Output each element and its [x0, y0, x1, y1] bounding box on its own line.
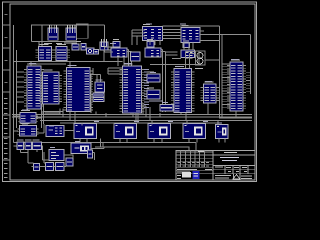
- resistor R10: [33, 140, 42, 150]
- counter U3: [36, 44, 55, 61]
- latch U1: [143, 24, 163, 41]
- label row under A cluster: [64, 43, 77, 44]
- microcontroller U5: [24, 63, 44, 109]
- wire long under U8: [150, 64, 199, 66]
- label small: [76, 41, 81, 42]
- wire opto exit: [91, 153, 95, 161]
- wire top feeds above U5: [27, 63, 66, 65]
- wire crystal feed: [88, 73, 101, 75]
- connector J1 outline: [77, 24, 89, 38]
- title block triangle logo: [233, 175, 240, 180]
- wire U9 to U10 mesh: [93, 68, 123, 74]
- wire step routes under U10: [133, 103, 150, 123]
- resistor R5: [147, 72, 160, 82]
- wire drop at x42: [41, 25, 43, 47]
- wire under A row: [32, 40, 81, 42]
- transformer T1: [195, 51, 205, 69]
- wire right bus B: [221, 35, 223, 119]
- label left of U6: [107, 50, 111, 51]
- wire right bus turn: [219, 117, 252, 119]
- gate U19: [46, 126, 64, 137]
- wire bottom bus 2: [95, 146, 189, 148]
- crystal Y1: [95, 80, 105, 93]
- wire U2 stub: [200, 30, 204, 32]
- wire bottom bus 1: [14, 141, 197, 143]
- capacitor C3: [34, 164, 40, 171]
- wire digit drops: [80, 139, 225, 143]
- title block text smudges: [177, 151, 252, 179]
- wire crystal drop A: [96, 74, 98, 82]
- title block outline: [176, 151, 255, 181]
- wire left bus A: [13, 25, 15, 142]
- adc U12: [227, 59, 246, 111]
- net label smudges scattered: [18, 24, 239, 148]
- wire mid bus 2: [12, 116, 252, 118]
- wire left bus B: [16, 50, 18, 128]
- wire crystal drop B: [100, 74, 102, 82]
- capacitor C1: [93, 93, 104, 97]
- regulator U20: [49, 150, 64, 161]
- wire link verticals between buses: [100, 139, 102, 148]
- 7-seg display DS5: [216, 125, 229, 139]
- opto U14: [87, 48, 95, 54]
- title block logo blue cell: [192, 171, 199, 179]
- wire left of U8: [172, 57, 181, 59]
- resistor R8: [17, 140, 24, 150]
- latch U10: [120, 63, 145, 113]
- wire bottom-left routes: [21, 146, 105, 167]
- resistor R7: [160, 105, 173, 112]
- wire U6 to U1 links: [132, 30, 145, 45]
- title block left lower rows: [176, 170, 213, 174]
- resistor R1: [72, 44, 79, 50]
- wire U2 long link right: [200, 34, 251, 36]
- label under RP2: [56, 43, 62, 44]
- title block revision ladder rows: [176, 152, 213, 167]
- wire mid vertical B: [43, 104, 45, 124]
- wire right margin vertical: [250, 35, 252, 95]
- wire RP3 drop to row wire: [103, 50, 105, 62]
- sheet outer border: [3, 2, 257, 182]
- wire right bus A: [218, 26, 220, 118]
- 7-seg display DS3: [148, 124, 171, 139]
- wire crystal column: [90, 75, 92, 113]
- 7-seg display DS2: [114, 124, 137, 139]
- resistor R2: [81, 44, 86, 51]
- wire left bus stubs to U5: [17, 72, 25, 102]
- resistor R6: [147, 88, 160, 99]
- sheet inner border: [10, 4, 255, 180]
- resistor network RP1: [48, 25, 58, 40]
- wire horizontal under gate row: [14, 61, 123, 63]
- wire RP3 to U6 links: [105, 47, 114, 52]
- wire U19 to DS1: [64, 130, 74, 132]
- title block right dividers: [213, 155, 255, 180]
- resistor R4: [94, 50, 99, 55]
- wire bus drop to title block A: [188, 147, 190, 151]
- diode D1: [88, 150, 93, 158]
- label under RP1: [44, 43, 52, 44]
- buffer U18: [18, 123, 39, 136]
- wire U7 to U8 links: [165, 52, 178, 55]
- wire mid verticals near U5: [41, 104, 43, 128]
- wire digit top feeds: [82, 121, 218, 126]
- net label box: [43, 112, 63, 115]
- 7-seg display DS4: [183, 124, 206, 139]
- ram U13: [201, 81, 220, 103]
- wire K column stubs: [14, 116, 45, 133]
- resistor network RP2: [66, 25, 77, 40]
- eprom U5B: [40, 69, 63, 104]
- resistor R12: [56, 163, 65, 171]
- wire mid bus 1: [12, 114, 252, 116]
- capacitor C2: [93, 98, 104, 102]
- opto coupler U7: [145, 39, 166, 112]
- latch U2: [181, 25, 200, 43]
- wire E-row to bus steps: [60, 103, 236, 123]
- eprom U11: [171, 66, 195, 113]
- wire U2 to U8 drops: [184, 43, 193, 51]
- opto coupler U6: [111, 39, 132, 66]
- wire drop to U5 top: [30, 62, 32, 67]
- wire top horizontal net: [31, 24, 105, 26]
- opto isolator U21: [71, 143, 91, 154]
- wire U1 to U6 drops: [150, 40, 160, 46]
- wire U6 to U10 drops: [118, 57, 124, 66]
- microcontroller U9: [64, 65, 94, 112]
- label under U10: [149, 101, 163, 102]
- opto coupler U8: [181, 41, 195, 69]
- wire drop to U9 top: [69, 62, 71, 68]
- wire top-left vertical: [31, 25, 33, 41]
- resistor network RP3: [100, 39, 108, 50]
- wire drop to U3 top: [38, 41, 40, 46]
- wire over U1 U2: [163, 25, 220, 27]
- wire bus drop to title block B: [195, 142, 197, 150]
- capacitor C4: [66, 158, 73, 166]
- wire stub to R8: [14, 145, 18, 147]
- wire H1 left stubs: [222, 64, 230, 107]
- 7-seg display DS1: [74, 124, 97, 139]
- buffer U17: [18, 110, 38, 123]
- wire bend at transformer: [198, 51, 200, 65]
- title block logo white cell: [182, 172, 191, 178]
- gate U6B: [131, 52, 141, 61]
- left zone tick marks: [3, 14, 11, 178]
- wire U2 return loop: [200, 40, 219, 42]
- counter U4: [53, 44, 70, 61]
- wire U1-U2 links: [163, 30, 182, 39]
- wire mid bus 4: [60, 122, 219, 124]
- net labels right of U10: [144, 69, 149, 108]
- wire mid bus 3: [40, 120, 252, 122]
- wire drop from top net to RP3: [104, 25, 106, 42]
- resistor R9: [25, 140, 32, 150]
- title block ladder cell texts: [178, 162, 210, 166]
- wire T1 to bus: [205, 59, 219, 61]
- wire H1 right stubs to margin: [246, 72, 251, 91]
- resistor R11: [46, 163, 54, 171]
- title block revision ladder columns: [181, 151, 214, 181]
